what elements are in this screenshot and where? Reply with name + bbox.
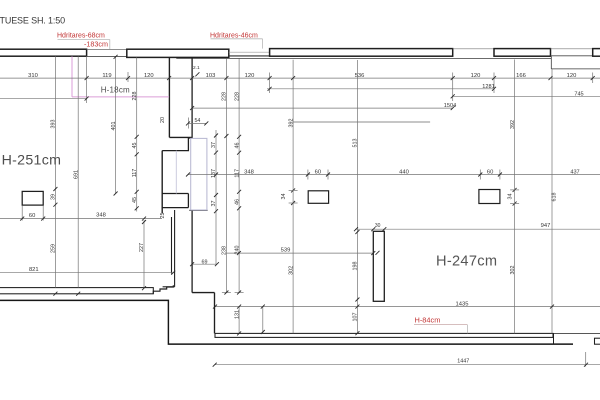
svg-text:20: 20 <box>160 117 166 123</box>
svg-text:302: 302 <box>288 266 294 275</box>
bar 34a bottom <box>289 202 298 204</box>
ticks vertical x216 <box>214 134 218 138</box>
interior ceiling line B <box>551 68 600 70</box>
svg-text:30: 30 <box>375 223 381 229</box>
vertical line x116 401 <box>115 56 117 193</box>
window W4 sill <box>551 55 593 57</box>
tall column rect <box>373 231 384 301</box>
interior ceiling line A <box>176 57 551 59</box>
vertical line x239 lower 131 <box>238 307 240 334</box>
red leader 46 vertical <box>262 39 264 49</box>
ticks vertical x357 <box>355 230 359 234</box>
svg-text:107: 107 <box>353 313 359 322</box>
red underline 84 <box>414 324 467 326</box>
ticks vertical x226 <box>224 134 228 138</box>
shaft door jamb upper <box>162 138 192 151</box>
ticks dim D2 <box>268 87 272 91</box>
vertical line x263 short <box>262 307 264 334</box>
faint line y122 <box>293 121 430 123</box>
step wall horizontal <box>192 292 214 294</box>
svg-text:228: 228 <box>132 92 138 101</box>
ticks dim D9 <box>186 121 190 125</box>
ticks dim D6 <box>85 97 89 101</box>
svg-text:440: 440 <box>399 170 409 176</box>
niche inner face light line <box>175 151 177 194</box>
svg-text:54: 54 <box>194 118 200 124</box>
red underline 46 <box>211 38 263 40</box>
vertical line x239 upper <box>238 58 240 292</box>
svg-text:-183cm: -183cm <box>84 40 108 49</box>
bar x226 end <box>222 292 231 294</box>
bar x239 end <box>235 292 244 294</box>
red underline 68 <box>58 39 110 41</box>
left room bottom wall steps <box>153 285 173 294</box>
corridor wall left upper <box>168 57 170 137</box>
window W2 top line <box>229 51 270 53</box>
svg-text:691: 691 <box>73 170 79 179</box>
stub rectB right <box>499 170 501 180</box>
vertical stub x42 <box>42 206 44 221</box>
niche left wall vertical <box>161 151 163 214</box>
wall top segment S5 <box>593 49 600 57</box>
ticks dim D4 <box>190 106 194 110</box>
svg-text:1435: 1435 <box>456 302 469 308</box>
ticks vertical x55 <box>53 187 57 191</box>
shaft door jamb lower <box>187 194 189 208</box>
svg-text:228: 228 <box>234 92 240 101</box>
step wall vertical <box>214 293 216 334</box>
magenta horizontal line <box>72 96 169 98</box>
niche bottom horizontal <box>162 193 188 195</box>
bar 34a top <box>289 189 298 191</box>
svg-text:137: 137 <box>211 169 217 178</box>
window W1 top line <box>87 49 127 51</box>
ticks dim D3 <box>451 94 455 98</box>
vertical stub x593 <box>592 73 594 84</box>
vertical line x137 chain <box>136 57 138 211</box>
svg-text:131: 131 <box>234 310 240 319</box>
svg-text:46: 46 <box>234 199 240 205</box>
vertical stub x494 <box>493 73 495 94</box>
vertical line x357 <box>356 60 358 333</box>
vertical stub x270 <box>269 73 271 94</box>
vertical line x77 <box>77 56 79 287</box>
svg-text:103: 103 <box>206 73 216 79</box>
svg-text:2.1: 2.1 <box>193 65 200 71</box>
wall top segment S1 <box>0 49 87 56</box>
svg-text:120: 120 <box>245 73 255 79</box>
ticks dim D16 <box>213 305 217 309</box>
dim line D15 539 <box>226 252 373 254</box>
dim line D4 1504 <box>192 107 453 109</box>
ticks dim D14 <box>190 262 194 266</box>
stub rectA right <box>327 170 329 180</box>
vertical line x293 <box>292 60 294 333</box>
svg-text:437: 437 <box>570 169 579 175</box>
ticks dim D18 <box>213 363 217 367</box>
svg-text:117: 117 <box>132 169 138 178</box>
bottom wall band right box <box>595 338 600 344</box>
dim line D13 821 <box>0 272 173 274</box>
ticks vertical x137 <box>135 135 139 139</box>
ticks vertical x263 <box>261 305 265 309</box>
svg-text:259: 259 <box>51 244 57 253</box>
interior step connector <box>550 56 552 69</box>
shaft lavender rect <box>191 138 207 210</box>
svg-text:240: 240 <box>234 246 240 255</box>
vertical stub x87 <box>86 56 88 103</box>
red leader 84 vertical <box>466 325 468 334</box>
dim line D17 947 <box>355 228 600 230</box>
vertical line x216 chain <box>215 130 217 264</box>
ticks vertical x77 <box>76 292 80 296</box>
svg-text:46: 46 <box>234 143 240 149</box>
svg-text:39: 39 <box>51 194 57 200</box>
svg-text:513: 513 <box>353 139 359 148</box>
bottom wall jamb vertical <box>553 333 555 344</box>
svg-text:401: 401 <box>111 122 117 131</box>
svg-text:392: 392 <box>510 120 516 129</box>
svg-text:45: 45 <box>132 143 138 149</box>
left room furniture rect <box>22 191 43 205</box>
dim line D12 60-348 <box>0 218 162 220</box>
vertical stub x128 <box>127 72 129 82</box>
svg-text:117: 117 <box>234 169 240 178</box>
dim line D16 1435 <box>215 306 600 308</box>
ticks dim D11 <box>186 173 190 177</box>
vertical line x551 <box>551 69 553 333</box>
svg-text:69: 69 <box>202 260 208 266</box>
window W1 sill <box>87 55 127 57</box>
ticks vertical x239 <box>237 135 241 139</box>
column rect A <box>308 191 328 204</box>
svg-text:120: 120 <box>144 73 154 79</box>
svg-text:198: 198 <box>353 262 359 271</box>
wall top segment S2 <box>127 49 229 57</box>
svg-text:745: 745 <box>574 92 583 98</box>
vertical stub x586 <box>585 352 587 367</box>
vertical line x226 <box>225 58 227 292</box>
dim line D3 745 <box>453 95 600 97</box>
svg-text:947: 947 <box>541 223 551 229</box>
svg-text:120: 120 <box>471 73 481 79</box>
svg-text:120: 120 <box>567 73 577 79</box>
svg-text:310: 310 <box>28 73 38 79</box>
shaft left wall vertical lower <box>191 210 193 292</box>
svg-text:166: 166 <box>516 73 526 79</box>
svg-text:539: 539 <box>281 248 291 254</box>
ticks vertical x293 <box>291 188 295 192</box>
svg-text:60: 60 <box>487 170 493 176</box>
tick label 21 <box>195 72 199 76</box>
svg-text:TUESE SH. 1:50: TUESE SH. 1:50 <box>0 16 65 26</box>
svg-text:1504: 1504 <box>444 103 456 109</box>
dim line D11 main chain <box>188 174 600 176</box>
outer boundary thick line <box>0 300 573 344</box>
vertical line x55 <box>54 56 56 287</box>
vertical stub x453 <box>452 73 454 102</box>
magenta vertical line <box>71 56 73 97</box>
red leader 68 vertical <box>109 40 111 50</box>
column rect B <box>479 190 500 204</box>
svg-text:25: 25 <box>160 213 166 219</box>
svg-text:37: 37 <box>211 201 217 207</box>
dim line D14 69 <box>192 263 217 265</box>
svg-text:Hdritares-46cm: Hdritares-46cm <box>210 32 258 39</box>
svg-text:45: 45 <box>132 197 138 203</box>
window W4 top line <box>551 48 593 50</box>
svg-text:60: 60 <box>29 213 35 219</box>
corridor wall right face <box>174 210 176 287</box>
svg-text:H-251cm: H-251cm <box>2 153 62 169</box>
vertical line x144 227 <box>143 220 145 288</box>
ticks vertical x144 <box>142 220 146 224</box>
svg-text:227: 227 <box>139 243 145 252</box>
ticks dim D1 <box>85 76 89 80</box>
vertical line x515 <box>514 60 516 334</box>
shaft left wall vertical upper <box>191 57 193 138</box>
svg-text:34: 34 <box>281 194 287 200</box>
left room bottom wall band <box>0 288 153 294</box>
dim line D2 1281 <box>267 88 494 90</box>
svg-text:228: 228 <box>222 92 228 101</box>
stub x188 for 54 dim <box>187 118 189 129</box>
svg-text:34: 34 <box>508 194 514 200</box>
ticks vertical x515 <box>513 188 517 192</box>
svg-text:348: 348 <box>244 170 254 176</box>
stub rectB left <box>479 170 481 180</box>
svg-text:60: 60 <box>315 170 321 176</box>
svg-text:1447: 1447 <box>457 358 469 364</box>
bar 34b bottom <box>510 203 519 205</box>
svg-text:302: 302 <box>510 266 516 275</box>
corridor wall bottom edge <box>163 286 175 288</box>
svg-text:37: 37 <box>211 142 217 148</box>
svg-text:H-18cm: H-18cm <box>101 86 130 95</box>
ticks dim D12 <box>20 217 24 221</box>
shaft bottom edge <box>189 209 207 211</box>
niche bottom step horizontal <box>162 207 188 209</box>
bottom wall band main <box>215 333 553 337</box>
svg-text:119: 119 <box>102 73 111 79</box>
tick column center <box>376 251 380 255</box>
dim line D18 1447 <box>215 364 600 366</box>
bar 34b top <box>510 189 519 191</box>
svg-text:348: 348 <box>96 213 106 219</box>
svg-text:H-84cm: H-84cm <box>415 316 441 325</box>
svg-text:392: 392 <box>288 119 294 128</box>
vertical stub x22 <box>21 206 23 221</box>
window W3 top line <box>453 48 494 50</box>
dim line D6 left <box>0 97 87 99</box>
svg-text:1281: 1281 <box>482 84 494 90</box>
stub rectA left <box>307 170 309 180</box>
svg-text:536: 536 <box>355 73 365 79</box>
dim line D1 y77 <box>0 77 600 79</box>
svg-text:238: 238 <box>222 246 228 255</box>
svg-text:618: 618 <box>552 193 558 202</box>
wall top segment S4 <box>494 49 551 57</box>
svg-text:H-247cm: H-247cm <box>436 253 497 269</box>
ticks dim D15 <box>237 251 241 255</box>
bottom wall top face line <box>215 332 600 334</box>
ticks dim D13 <box>171 271 175 275</box>
svg-text:Hdritares-68cm: Hdritares-68cm <box>57 32 105 39</box>
dim line D9 54 <box>188 122 206 124</box>
corridor wall inner face <box>171 217 173 274</box>
ticks dim D17 <box>354 227 358 231</box>
svg-text:393: 393 <box>51 120 57 129</box>
niche top wall horizontal <box>169 136 192 138</box>
wall top segment S3 <box>270 49 453 57</box>
svg-text:821: 821 <box>29 267 39 273</box>
ticks vertical x116 <box>114 192 118 196</box>
window W2 sill <box>229 55 270 57</box>
